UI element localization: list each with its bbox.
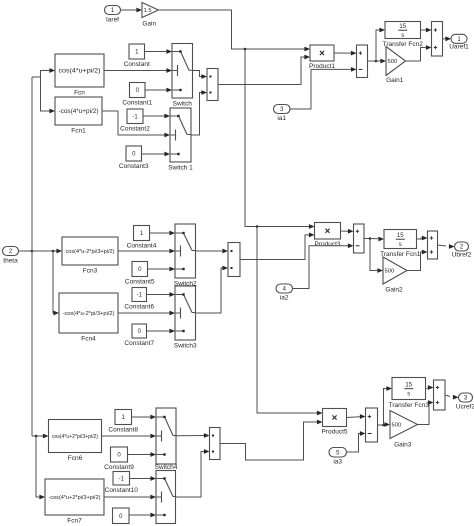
wire Add2 to Uaref1: [443, 36, 452, 41]
wire Add1 to Product1 input 2: [218, 55, 310, 85]
svg-text:-cos(4*u+2*pi/3+pi/2): -cos(4*u+2*pi/3+pi/2): [49, 495, 101, 501]
transfer function Transfer Fcn3 (15/s): [389, 378, 430, 410]
wire Constant2 to Switch1 input 1: [143, 114, 170, 119]
wire theta vertical distribution bus: [31, 77, 33, 436]
svg-text:Fcn3: Fcn3: [83, 268, 98, 275]
junction branch to Product5 (257,226.5): [256, 225, 259, 228]
wire Constant to Switch input 1: [145, 49, 173, 54]
svg-text:s: s: [407, 392, 410, 398]
wire Add6 to Ucref3: [445, 395, 459, 400]
wire to Gain3: [384, 422, 391, 427]
junction theta group 3: [35, 435, 38, 438]
fcn Fcn3 cos(4*u-2*pi/3+pi/2): [62, 237, 118, 275]
constant Constant (1): [124, 44, 150, 68]
switch Switch1: [168, 108, 193, 172]
wire Iaref to Gain: [121, 8, 143, 13]
gain Gain (1.5): [142, 3, 159, 28]
svg-text:Constant2: Constant2: [120, 126, 150, 133]
junction at current-command bus (245,49): [244, 48, 247, 51]
constant Constant1 (0): [122, 83, 152, 107]
wire theta branch to Fcn1: [41, 77, 56, 113]
sum Sum3 (+,-): [366, 408, 378, 442]
svg-text:15: 15: [405, 382, 412, 388]
wire Switch2 to Add3 input 1: [196, 249, 229, 254]
wire Switch3 to Add3 input 2: [196, 266, 229, 313]
wire Transfer Fcn1 to Add4 input 1: [417, 236, 428, 241]
constant Constant7 (0): [124, 324, 154, 347]
wire theta to Fcn7: [36, 436, 45, 499]
constant Constant5 (0): [125, 262, 155, 286]
wire to Transfer Fcn3: [384, 386, 393, 425]
wire vertical bus branch A down to Product3: [245, 49, 315, 229]
svg-text:Switch: Switch: [173, 101, 193, 108]
wire theta to Fcn3: [32, 249, 62, 254]
wire Switch5 to Add5 input 2: [176, 449, 210, 497]
svg-text:Ucref3: Ucref3: [456, 403, 474, 410]
svg-text:Constant6: Constant6: [124, 304, 154, 311]
fcn Fcn7 -cos(4*u+2*pi/3+pi/2): [45, 479, 104, 525]
svg-text:Fcn4: Fcn4: [81, 336, 96, 343]
svg-text:Product5: Product5: [321, 429, 347, 436]
wire Gain output to Product1 input 1: [159, 10, 311, 51]
wire Add3 to Product3 input 2: [240, 233, 315, 260]
svg-text:-1: -1: [119, 476, 125, 482]
constant Constant10 (-1): [105, 472, 139, 495]
wire Switch4 to Add5 input 1: [176, 433, 210, 438]
svg-text:Switch4: Switch4: [155, 464, 178, 471]
product Product1: [309, 45, 335, 70]
svg-text:-1: -1: [137, 293, 143, 299]
svg-text:ia2: ia2: [280, 295, 289, 302]
switch Switch4: [155, 408, 178, 471]
wire ia1 to Sum1 minus input: [290, 67, 357, 109]
gain Gain1 (500): [386, 47, 406, 85]
wire vertical bus branch B down to Product5: [257, 227, 323, 416]
svg-text:-cos(4*u-2*pi/3+pi/2): -cos(4*u-2*pi/3+pi/2): [63, 311, 115, 317]
svg-text:Constant4: Constant4: [127, 243, 157, 250]
wire Constant9 to Switch4 input 3: [128, 452, 157, 457]
wire Gain3 to Add6 input 2: [418, 400, 434, 424]
svg-text:Switch 1: Switch 1: [168, 165, 193, 172]
constant Constant4 (1): [127, 226, 157, 250]
svg-text:Ubref2: Ubref2: [452, 252, 472, 259]
svg-text:-cos(4*u+pi/2): -cos(4*u+pi/2): [59, 109, 99, 115]
svg-text:Fcn7: Fcn7: [67, 518, 82, 525]
gain Gain3 (500): [390, 411, 418, 449]
output port Ucref3: [456, 393, 474, 410]
wire Fcn7 to Switch5 input 2: [104, 495, 156, 500]
svg-text:s: s: [401, 33, 404, 39]
wire Fcn4 to Switch3 input 2: [118, 311, 175, 316]
constant Constant3 (0): [119, 146, 149, 170]
switch Switch2: [174, 224, 197, 288]
switch Switch: [172, 44, 193, 108]
wire Constant7 to Switch3 input 3: [147, 329, 176, 334]
constant Constant6 (-1): [124, 288, 154, 311]
input port theta: [3, 247, 19, 265]
svg-text:Constant: Constant: [124, 61, 150, 68]
fcn Fcn cos(4*u+pi/2): [55, 54, 104, 97]
svg-text:theta: theta: [3, 258, 18, 265]
wire Product5 to Sum3 plus input: [347, 414, 366, 419]
wire Constant6 to Switch3 input 1: [147, 292, 176, 297]
sum Add6 (+,+): [434, 380, 446, 410]
constant Constant11 (0): [113, 508, 130, 524]
wire to Gain2: [370, 239, 383, 273]
switch Switch3: [174, 286, 197, 350]
svg-text:Constant5: Constant5: [125, 279, 155, 286]
wire to Gain1: [376, 59, 386, 64]
svg-text:cos(4*u+pi/2): cos(4*u+pi/2): [59, 69, 101, 75]
wire Sum1 output to PI branches: [368, 60, 377, 62]
wire Switch1 to Add1 input 2: [191, 90, 207, 135]
input port ia3: [329, 448, 347, 466]
wire ia2 to Sum2 minus input: [293, 243, 354, 288]
wire to Transfer Fcn2: [376, 28, 385, 61]
svg-text:-1: -1: [132, 114, 138, 120]
fcn Fcn4 -cos(4*u-2*pi/3+pi/2): [59, 293, 118, 343]
wire Product1 to Sum1 plus input: [334, 51, 357, 56]
sum Add3: [228, 243, 240, 277]
wire theta to Fcn4: [53, 251, 59, 315]
wire Sum2 output to PI branches: [364, 238, 370, 240]
svg-text:Constant3: Constant3: [119, 163, 149, 170]
svg-text:Constant9: Constant9: [104, 464, 134, 471]
constant Constant8 (1): [108, 410, 138, 434]
wire Gain1 to Add2 input 2: [406, 45, 432, 61]
svg-text:500: 500: [385, 269, 395, 275]
wire Gain2 to Add4 input 2: [407, 250, 428, 271]
sum Add5: [210, 428, 221, 460]
svg-text:Product3: Product3: [314, 241, 340, 248]
sum Sum1 (+,-): [357, 45, 368, 78]
svg-text:15: 15: [399, 24, 406, 30]
input port ia1: [274, 105, 291, 123]
junction PI split group 1: [375, 60, 378, 63]
wire Add5 to Product5 input 2: [220, 420, 323, 460]
svg-text:Fcn6: Fcn6: [68, 455, 83, 462]
svg-text:Constant10: Constant10: [105, 487, 139, 494]
wire Constant5 to Switch2 input 3: [148, 267, 176, 272]
wire Sum3 output to PI branches: [378, 424, 384, 426]
transfer function Transfer Fcn1 (15/s): [380, 230, 421, 259]
svg-text:500: 500: [388, 59, 398, 65]
constant Constant2 (-1): [120, 109, 150, 133]
svg-text:Iaref: Iaref: [106, 17, 119, 24]
sum Sum2 (+,-): [354, 224, 365, 253]
transfer function Transfer Fcn2 (15/s): [383, 22, 424, 49]
wire Fcn6 to Switch4 input 2: [102, 434, 157, 439]
wire Constant3 to Switch1 input 3: [142, 152, 171, 157]
svg-text:Gain2: Gain2: [385, 287, 403, 294]
svg-text:500: 500: [392, 423, 402, 429]
wire Switch to Add1 input 1: [193, 71, 208, 79]
product Product3: [314, 223, 340, 249]
wire to Transfer Fcn1: [370, 237, 384, 242]
wire Constant10 to Switch5 input 1: [130, 476, 157, 481]
wire Product3 to Sum2 plus input: [341, 229, 354, 234]
svg-text:Constant8: Constant8: [108, 427, 138, 434]
wire Constant11 to Switch5 input 3: [129, 513, 156, 518]
junction theta group 2: [52, 250, 55, 253]
junction PI split group 2: [369, 237, 372, 240]
wire Fcn to Switch input 2: [104, 68, 172, 73]
sum Add4 (+,+): [428, 231, 438, 259]
input port ia2: [276, 284, 293, 302]
svg-text:1.5: 1.5: [144, 8, 152, 14]
svg-text:Constant1: Constant1: [122, 100, 152, 107]
svg-text:s: s: [399, 242, 402, 248]
constant Constant9 (0): [104, 447, 134, 471]
fcn Fcn6 cos(4*u+2*pi/3+pi/2): [49, 420, 102, 463]
wire Fcn3 to Switch2 input 2: [118, 249, 175, 254]
node theta main junction: [31, 250, 34, 253]
wire theta to distribution node: [19, 250, 33, 252]
wire Constant8 to Switch4 input 1: [132, 415, 157, 420]
wire Transfer Fcn2 to Add2 input 1: [421, 28, 432, 33]
gain Gain2 (500): [383, 257, 407, 294]
svg-text:15: 15: [397, 233, 404, 239]
wire Constant4 to Switch2 input 1: [150, 231, 176, 236]
fcn Fcn1 -cos(4*u+pi/2): [55, 97, 102, 135]
wire Transfer Fcn3 to Add6 input 1: [426, 385, 434, 390]
svg-text:Fcn: Fcn: [74, 90, 85, 97]
sum Add1: [207, 69, 218, 101]
junction PI split group 3: [382, 424, 385, 427]
output port Uaref1: [449, 34, 469, 50]
svg-text:Gain1: Gain1: [386, 77, 404, 84]
svg-text:ia1: ia1: [277, 115, 286, 122]
wire Add4 to Ubref2: [438, 244, 455, 249]
product Product5: [321, 409, 347, 436]
wire ia3 to Sum3 minus input: [347, 431, 366, 452]
svg-text:Gain: Gain: [142, 21, 156, 28]
wire theta branch to Fcn group 1: [32, 68, 55, 77]
svg-text:cos(4*u-2*pi/3+pi/2): cos(4*u-2*pi/3+pi/2): [66, 249, 115, 255]
sum Add2 (+,+): [432, 22, 443, 57]
wire theta to Fcn6: [32, 434, 49, 439]
svg-text:Transfer Fcn2: Transfer Fcn2: [383, 41, 424, 48]
svg-text:Transfer Fcn1: Transfer Fcn1: [380, 251, 421, 258]
wire Constant1 to Switch input 3: [145, 88, 172, 93]
svg-text:Constant7: Constant7: [124, 340, 154, 347]
svg-text:Gain3: Gain3: [394, 442, 412, 449]
svg-text:Uaref1: Uaref1: [449, 44, 469, 51]
svg-text:Switch3: Switch3: [174, 343, 197, 350]
switch Switch5: [156, 471, 176, 524]
svg-text:Fcn1: Fcn1: [71, 128, 86, 135]
input port Iaref: [105, 6, 121, 24]
svg-text:Transfer Fcn3: Transfer Fcn3: [389, 402, 430, 409]
svg-text:cos(4*u+2*pi/3+pi/2): cos(4*u+2*pi/3+pi/2): [52, 434, 98, 440]
svg-text:ia3: ia3: [333, 459, 342, 466]
output port Ubref2: [452, 242, 472, 259]
wire Fcn1 to Switch1 input 2: [102, 111, 170, 137]
